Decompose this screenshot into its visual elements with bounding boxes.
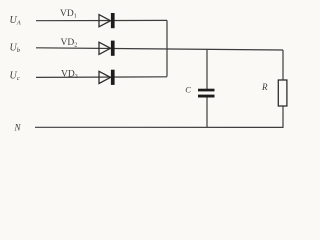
wire resistor top lead [282,50,284,80]
wire phase A row [36,19,167,21]
diode VD2 [99,41,115,56]
svg-text:C: C [185,84,191,94]
wire common cathode vertical [166,20,168,76]
wire phase B row [36,48,283,50]
wire neutral N row [35,126,284,128]
capacitor C plates [198,89,215,98]
svg-text:N: N [14,123,22,133]
wire capacitor top lead [206,49,208,89]
wire capacitor bottom lead [206,97,208,127]
background paper [0,0,300,153]
wire phase C row [36,76,167,79]
svg-text:R: R [261,82,268,92]
wire resistor bottom lead [282,106,284,127]
resistor R body [278,80,287,106]
diode VD3 [99,70,115,85]
diode VD1 [99,13,115,28]
